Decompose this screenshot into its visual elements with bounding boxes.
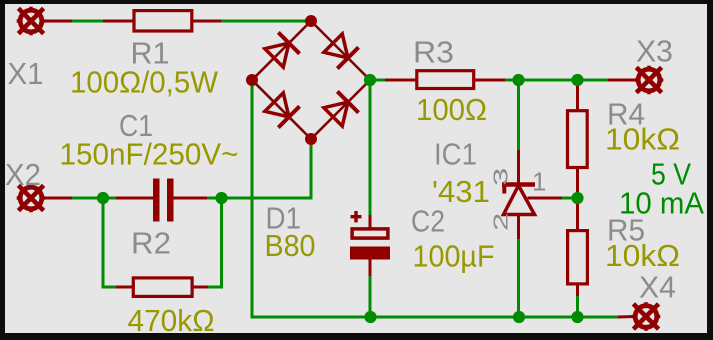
- resistor R3: [417, 71, 474, 89]
- terminal X2: [17, 184, 46, 213]
- svg-text:X1: X1: [8, 56, 44, 91]
- wire net: R3 right pin lead: [473, 79, 505, 82]
- terminal X1: [17, 7, 46, 36]
- svg-text:R3: R3: [413, 35, 454, 70]
- junction dot R4 tap: [571, 74, 583, 86]
- wire net: IC1 cathode pin lead: [517, 150, 520, 183]
- wire net: C2 bottom pin lead: [369, 260, 372, 277]
- wire net R2 branch: right vertical: [208, 198, 222, 287]
- svg-text:3: 3: [489, 168, 512, 186]
- wire net: R2 right pin lead: [192, 286, 208, 289]
- resistor R1: [134, 11, 192, 31]
- junction dot rail IC1: [513, 311, 525, 323]
- diode D1b top-right: [322, 32, 358, 68]
- wire net: IC1 ref to junction: [562, 197, 572, 200]
- wire net: IC1 anode pin lead: [517, 215, 520, 240]
- bridge rectifier D1 edge bottom-right: [311, 80, 370, 139]
- wire net: C2 branch from bridge right node: [369, 86, 372, 215]
- wire net: IC1 anode to bottom rail: [517, 239, 520, 317]
- junction dot rail C2: [364, 311, 376, 323]
- wire net: R4 bottom pin lead: [576, 167, 579, 198]
- wire net: R1 right pin lead: [192, 20, 221, 23]
- wire net VIN-top: R1 left pin lead: [103, 20, 134, 23]
- junction dot bridge right node: [364, 74, 376, 86]
- op-amp IC1 TL431 cathode bar: [502, 182, 535, 187]
- svg-text:100Ω: 100Ω: [416, 92, 487, 127]
- wire net AC2: bridge bottom node down then left: [222, 145, 312, 198]
- wire net VIN-top: X1 to R1: [72, 20, 103, 23]
- capacitor C2 plus sign: [351, 211, 362, 222]
- svg-text:10kΩ: 10kΩ: [605, 238, 680, 273]
- wire net PLUS: bridge right node to R3: [370, 79, 385, 82]
- svg-text:R2: R2: [131, 226, 171, 261]
- wire net PLUS: R3 to X3: [505, 79, 608, 82]
- wire net MINUS: X4 lead: [618, 315, 634, 319]
- wire net: C1 to junction: [207, 197, 222, 200]
- terminal X4: [632, 302, 661, 331]
- diode D1a top-left: [263, 32, 299, 68]
- capacitor C1 left plate: [153, 179, 160, 222]
- diode D1c bottom-left: [263, 91, 299, 127]
- junction dot C1-R2-bridge: [215, 192, 227, 204]
- capacitor C2 top plate: [352, 229, 388, 238]
- wire net: C2 top pin lead: [369, 215, 372, 229]
- bridge rectifier D1 edge bottom-left: [252, 80, 311, 139]
- wire net: R1 to bridge top node: [221, 20, 311, 23]
- wire net MINUS: bridge left node down and bottom rail: [252, 86, 618, 317]
- junction dot ref divider: [571, 192, 583, 204]
- node bridge bottom (dark red junction): [305, 133, 317, 145]
- resistor R5: [568, 231, 588, 284]
- svg-text:X4: X4: [639, 270, 676, 305]
- wire net: C1 right pin lead: [174, 197, 208, 200]
- wire net: R3 left pin lead: [385, 79, 417, 82]
- svg-text:B80: B80: [265, 228, 316, 263]
- wire net X2 row: junction to C1: [103, 197, 116, 200]
- node bridge top (dark red junction): [305, 15, 317, 27]
- capacitor C2 bottom plate: [350, 247, 390, 260]
- wire net R2 branch: left vertical: [103, 198, 116, 287]
- wire net: R2 left pin lead: [116, 286, 134, 289]
- svg-text:X2: X2: [5, 157, 41, 192]
- svg-text:X3: X3: [636, 34, 673, 69]
- svg-text:C2: C2: [411, 204, 445, 239]
- wire net: R5 top pin lead: [576, 198, 579, 231]
- bridge rectifier D1 edge top-right: [311, 21, 370, 80]
- wire net X2 row: X2 to junction: [72, 197, 103, 200]
- wire net VIN-top: X1 lead: [43, 20, 72, 23]
- resistor R4: [568, 111, 588, 168]
- svg-text:2: 2: [489, 213, 512, 231]
- op-amp IC1 TL431 triangle: [504, 186, 535, 215]
- wire net: R5 to bottom rail: [576, 296, 579, 317]
- wire net: X3 lead: [608, 79, 636, 82]
- junction dot IC1 cathode tap: [512, 74, 524, 86]
- svg-text:100µF: 100µF: [413, 239, 495, 274]
- svg-text:10kΩ: 10kΩ: [605, 122, 680, 157]
- terminal X3: [635, 66, 664, 95]
- node bridge left (dark red junction): [246, 74, 258, 86]
- wire net: junction to IC1 cathode: [517, 80, 520, 150]
- wire net: R4 top pin lead: [576, 84, 579, 111]
- resistor R2: [133, 278, 192, 297]
- wire net: R5 bottom pin lead: [576, 283, 579, 296]
- op-amp IC1 TL431 cathode bar hook: [502, 186, 506, 194]
- svg-text:150nF/250V~: 150nF/250V~: [60, 137, 239, 172]
- wire net: C1 left pin lead: [116, 197, 153, 200]
- bridge rectifier D1 edge top-left: [252, 21, 311, 80]
- svg-text:IC1: IC1: [434, 137, 477, 172]
- junction dot rail R5: [571, 311, 583, 323]
- capacitor C1 right plate: [167, 179, 174, 222]
- svg-text:470kΩ: 470kΩ: [128, 303, 215, 338]
- junction dot X2-C1: [97, 192, 109, 204]
- diode D1d bottom-right: [322, 91, 358, 127]
- wire net: IC1 ref pin lead: [528, 197, 563, 200]
- svg-text:100Ω/0,5W: 100Ω/0,5W: [70, 65, 219, 100]
- wire net X2 row: X2 lead: [43, 197, 72, 200]
- wire net: C2 to bottom rail: [369, 276, 372, 317]
- svg-text:1: 1: [532, 167, 546, 197]
